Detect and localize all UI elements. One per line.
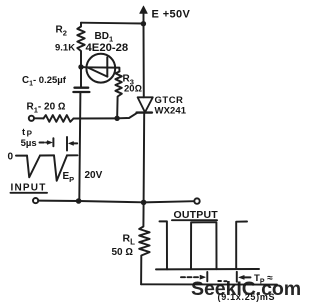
svg-text:20V: 20V (85, 170, 103, 181)
svg-text:EP: EP (63, 171, 75, 184)
input sawtooth pulse 2 (54, 155, 67, 180)
dimension arrow (left pointing) (67, 137, 77, 151)
wire R1 to gate node (crosses C1 branch) (74, 117, 118, 119)
input waveform baseline segments (16, 155, 27, 157)
pulse width marks: left dashes/arrow (181, 272, 207, 281)
wire C1 bottom down to input line (79, 92, 80, 201)
svg-text:0: 0 (8, 152, 14, 163)
svg-text:9.1K: 9.1K (55, 43, 75, 54)
node: top supply junction (141, 21, 146, 26)
svg-text:tP: tP (22, 127, 33, 139)
input terminal (upper, to R1) (29, 116, 34, 121)
wire terminal to R1 (34, 117, 43, 119)
svg-text:5µs: 5µs (21, 138, 37, 149)
wire input line (38, 201, 143, 203)
output square wave: partial right pulse (rise) (236, 222, 247, 270)
thyristor GTCR WX241 (137, 97, 153, 112)
svg-text:4E20-28: 4E20-28 (86, 42, 129, 54)
resistor RL (load) (139, 202, 149, 284)
wire node to BD1 circle (81, 66, 87, 68)
output square wave baseline (156, 268, 259, 270)
wire top rail (81, 22, 144, 25)
node: gate junction R1/R3 (114, 116, 119, 121)
svg-text:R2: R2 (56, 25, 67, 38)
svg-text:R1- 20 Ω: R1- 20 Ω (27, 102, 66, 115)
wire main vertical (anode from supply) (143, 24, 145, 98)
svg-text:20Ω: 20Ω (124, 84, 142, 95)
svg-text:OUTPUT: OUTPUT (174, 209, 219, 221)
svg-text:50 Ω: 50 Ω (112, 247, 134, 258)
output square wave: full pulse (191, 222, 217, 269)
underline OUTPUT (172, 219, 217, 221)
resistor R2 (77, 23, 84, 65)
dimension arrow after 5us (40, 138, 54, 146)
wire BD1 to R3 (115, 68, 119, 72)
wire node to C1 top plate (80, 67, 82, 88)
wire bottom rail (141, 283, 277, 285)
svg-text:SeekIC.com: SeekIC.com (191, 278, 301, 300)
node: output junction (141, 200, 147, 206)
supply arrow E +50V (140, 6, 148, 24)
underline INPUT (11, 192, 48, 194)
node: R2 / C1 / BD1 junction (78, 64, 83, 69)
resistor R1 (44, 115, 74, 122)
resistor R3 (115, 72, 121, 117)
breakdown diode BD1 (circle with internal symbol) (86, 54, 115, 83)
svg-text:C1- 0.25µf: C1- 0.25µf (22, 75, 67, 88)
svg-text:GTCR: GTCR (155, 95, 184, 106)
node: C1 / input junction (76, 198, 82, 204)
svg-text:RL: RL (123, 233, 136, 247)
svg-text:WX241: WX241 (155, 106, 187, 117)
input terminal (lower) (33, 198, 38, 203)
output terminal (194, 198, 199, 203)
gap dashes (218, 280, 226, 282)
pulse width marks: right bar/arrow (237, 272, 251, 282)
wire gate to thyristor (117, 113, 137, 118)
wire output (144, 201, 195, 202)
wire cathode down to output node (143, 113, 146, 203)
capacitor C1 plates (73, 88, 89, 92)
input sawtooth pulse 1 (27, 156, 40, 178)
output square wave: partial left pulse (fall) (160, 221, 168, 269)
svg-text:E +50V: E +50V (152, 9, 191, 21)
